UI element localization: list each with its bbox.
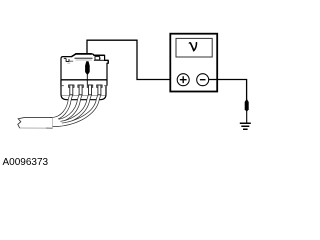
wire 4 — [50, 94, 100, 125]
minus terminal — [197, 74, 209, 86]
connector upper body outline — [61, 54, 108, 86]
voltmeter display — [176, 38, 212, 57]
voltmeter U1 body — [170, 34, 217, 92]
voltmeter V label — [189, 42, 198, 52]
ground symbol — [240, 123, 251, 129]
terminal seal 4 — [97, 85, 102, 95]
top-right tab inner — [94, 54, 105, 56]
wire 2 — [50, 94, 81, 121]
wire from minus terminal to ground probe — [209, 80, 247, 101]
wire from probe to voltmeter plus terminal — [87, 40, 177, 79]
probe spike into connector — [85, 61, 90, 75]
ground probe tip — [245, 99, 249, 112]
latch top thick edge — [75, 53, 91, 55]
cavity line below probe — [86, 75, 88, 85]
connector lower retainer — [61, 80, 106, 100]
plus terminal — [177, 74, 189, 86]
figure label — [3, 157, 49, 168]
body side joint ticks — [61, 85, 107, 87]
terminal seal 3 — [87, 85, 92, 95]
terminal seal 2 — [78, 85, 83, 95]
wire sleeve (harness loom) — [18, 118, 53, 129]
terminal seal 1 — [69, 85, 74, 95]
top-left latch hook — [64, 58, 69, 61]
latch inner line — [75, 57, 93, 59]
retainer seam — [62, 94, 105, 96]
body seam line — [61, 79, 107, 81]
wire 1 — [50, 94, 72, 119]
wire 3 — [50, 94, 90, 123]
bundle merge patch — [50, 118, 64, 126]
